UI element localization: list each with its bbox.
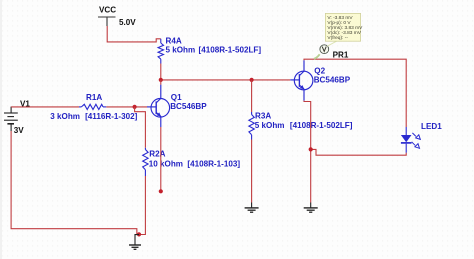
transistor Q2 xyxy=(290,60,313,100)
svg-text:R1A: R1A xyxy=(86,93,102,102)
svg-text:3 kOhm: 3 kOhm xyxy=(50,112,80,121)
svg-text:R3A: R3A xyxy=(255,112,271,121)
VCC power symbol xyxy=(98,17,116,26)
transistor Q1 xyxy=(147,85,170,127)
resistor R3A xyxy=(249,112,254,140)
wire Q1 emitter stub xyxy=(160,127,162,191)
ground GND1 xyxy=(129,235,141,250)
wire node row to R3A xyxy=(251,80,253,112)
junction R3A tap xyxy=(250,78,254,82)
svg-text:R2A: R2A xyxy=(149,149,165,158)
wire LED to Q2 emitter node xyxy=(311,149,406,155)
wire node row to Q2 base xyxy=(161,79,290,81)
svg-text:V(freq): --: V(freq): -- xyxy=(327,35,348,41)
wire V1 minus to ground node xyxy=(11,131,139,235)
Q2 emitter arrow xyxy=(300,85,305,89)
LED1 triangle xyxy=(401,135,412,142)
junction base node xyxy=(133,105,137,109)
junction emitter/LED return xyxy=(309,147,313,151)
svg-text:[4116R-1-302]: [4116R-1-302] xyxy=(85,112,137,121)
wire Q1 collector xyxy=(160,80,162,85)
LED1 emission arrow 1 xyxy=(412,133,420,140)
svg-text:PR1: PR1 xyxy=(333,51,349,60)
wire base node to R2A xyxy=(135,107,146,148)
resistor R2A xyxy=(143,148,148,176)
Q1 emitter arrow xyxy=(157,112,162,116)
wire V1 plus to R1A xyxy=(11,106,79,108)
svg-text:[4108R-1-103]: [4108R-1-103] xyxy=(187,159,240,168)
svg-text:BC546BP: BC546BP xyxy=(170,102,207,111)
svg-text:[4108R-1-502LF]: [4108R-1-502LF] xyxy=(290,121,353,130)
wire R1A to Q1 base xyxy=(106,106,147,108)
left edge shade xyxy=(0,0,2,259)
svg-text:3V: 3V xyxy=(14,126,25,135)
battery V1 xyxy=(4,107,18,131)
resistor R4A xyxy=(158,39,163,64)
wire R4A to node row xyxy=(160,64,162,80)
LED1 emission arrow 2 xyxy=(412,142,420,149)
probe leader swoosh xyxy=(314,54,320,59)
junction collector Q1 / R4A xyxy=(159,78,163,82)
junction ground node xyxy=(137,232,141,236)
leader probe to readout box xyxy=(327,41,336,46)
wire Q2 emitter down xyxy=(304,101,311,203)
svg-text:LED1: LED1 xyxy=(421,122,442,131)
svg-text:5 kOhm: 5 kOhm xyxy=(166,46,196,55)
probe V letter xyxy=(322,47,326,52)
svg-text:Q1: Q1 xyxy=(171,93,182,102)
ground GND3 xyxy=(304,203,318,213)
wire VCC to R4A xyxy=(107,26,161,42)
svg-text:Q2: Q2 xyxy=(314,67,325,76)
svg-text:10 kOhm: 10 kOhm xyxy=(149,159,183,168)
svg-text:5 kOhm: 5 kOhm xyxy=(255,121,285,130)
junction emitter stub end xyxy=(159,189,163,193)
svg-text:5.0V: 5.0V xyxy=(119,18,136,27)
wire R3A to ground xyxy=(251,140,253,203)
LED LED1 xyxy=(401,127,412,153)
svg-text:R4A: R4A xyxy=(166,37,182,46)
svg-text:BC546BP: BC546BP xyxy=(314,76,351,85)
probe PR1 circle xyxy=(320,45,329,54)
wire Q2 collector to LED top xyxy=(304,59,406,127)
svg-text:[4108R-1-502LF]: [4108R-1-502LF] xyxy=(199,46,262,55)
probe readout box xyxy=(325,13,360,41)
resistor R1A xyxy=(79,104,106,109)
svg-text:VCC: VCC xyxy=(99,6,116,15)
ground GND2 xyxy=(245,203,259,213)
wire R2A to ground node xyxy=(139,176,145,235)
